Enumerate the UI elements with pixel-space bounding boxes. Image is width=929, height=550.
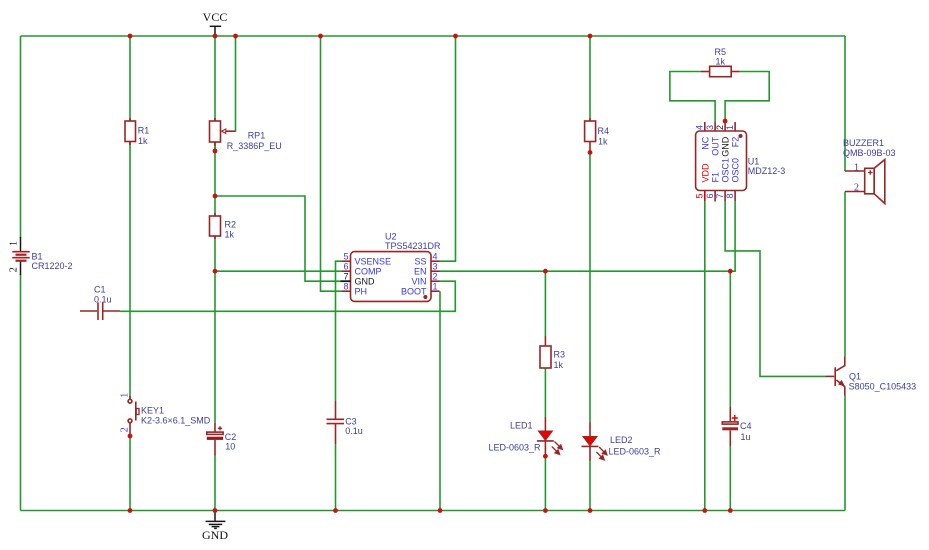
junction bottom rail at GND [213,508,218,513]
svg-text:R5: R5 [715,47,727,57]
svg-text:R3: R3 [554,350,566,360]
svg-text:U2: U2 [385,232,397,242]
svg-text:K2-3.6×6.1_SMD: K2-3.6×6.1_SMD [141,416,211,426]
svg-text:3: 3 [705,125,715,130]
svg-text:2: 2 [715,125,725,130]
svg-text:1k: 1k [598,137,608,147]
junction top rail at PH column [318,34,323,39]
wire RP1 bottom to R2 [214,142,216,217]
pushbutton KEY1 [120,393,211,436]
junction top rail at R4 [588,34,593,39]
junction top rail at R1 [128,34,133,39]
junction bottom rail at LED2 [588,508,593,513]
wire R5 left loop to U1 pin3 OUT [670,72,715,123]
transistor Q1 [826,356,917,396]
svg-text:OSC0: OSC0 [731,158,741,183]
svg-text:BUZZER1: BUZZER1 [843,138,884,148]
svg-text:C1: C1 [94,285,106,295]
svg-text:MDZ12-3: MDZ12-3 [748,166,786,176]
junction dot R2 bottom [213,269,218,274]
wire R3 to LED1 [544,368,546,417]
wire U1 OSC1 pin7 to Q1 base [725,201,825,376]
svg-text:10: 10 [225,442,235,452]
svg-text:OUT: OUT [711,136,721,156]
junction dot LED1 bottom [543,454,548,459]
junction bottom rail at BOOT column [438,508,443,513]
wire KEY1 to bottom rail [129,436,131,511]
svg-text:4: 4 [433,251,438,261]
capacitor C1 [80,285,120,321]
wire LED2 to bottom rail [589,461,591,511]
polarized capacitor C4 [722,407,751,446]
wire R2 junction down to C2 [214,271,216,423]
wire PH pin8 to top rail [321,36,343,291]
svg-text:1: 1 [433,281,438,291]
wire C2 to bottom rail [214,456,216,511]
wire C3 to bottom rail [335,444,337,511]
svg-text:R1: R1 [138,126,150,136]
svg-text:CR1220-2: CR1220-2 [32,261,73,271]
wire VSENSE pin5 down to C3 [336,261,343,401]
svg-text:2: 2 [433,271,438,281]
svg-text:BOOT: BOOT [401,287,427,297]
svg-text:1: 1 [854,162,859,173]
svg-text:F2: F2 [731,137,741,148]
wire EN node down through C4 [729,271,731,407]
wire VIN pin2 to C1 line [120,281,455,311]
wire left rail lower [20,274,22,511]
IC U1 MDZ12-3 [695,122,786,202]
wire right rail buzzer pin1 drop [844,36,846,171]
LED LED2 [582,422,662,461]
svg-text:COMP: COMP [355,267,382,277]
junction top rail at SS column [453,34,458,39]
svg-text:0.1u: 0.1u [345,426,363,436]
svg-text:5: 5 [695,193,705,198]
svg-text:2: 2 [120,427,131,432]
svg-text:7: 7 [715,193,725,198]
svg-text:PH: PH [355,287,368,297]
svg-text:NC: NC [700,136,710,149]
wire top rail [21,35,846,37]
potentiometer RP1 [210,118,282,151]
svg-text:R_3386P_EU: R_3386P_EU [227,141,282,151]
resistor R4 [585,118,609,152]
svg-text:SS: SS [414,257,426,267]
junction dot EN end [728,269,733,274]
junction dot node at 196 [213,194,218,199]
LED LED1 [489,417,563,454]
GND ground symbol [202,511,228,543]
junction bottom rail at C4 [728,508,733,513]
wire U1 OSC0 pin8 to EN node [730,201,735,271]
VCC power symbol [203,10,228,36]
junction bottom rail at C3 [333,508,338,513]
svg-text:LED1: LED1 [510,421,533,431]
buzzer BUZZER1 [843,138,896,204]
svg-text:1u: 1u [741,432,751,442]
svg-text:KEY1: KEY1 [141,406,164,416]
wire Q1 emitter to bottom rail [844,396,846,511]
junction dot R4 bottom [588,150,593,155]
wire R3 branch from EN line [544,271,546,336]
svg-text:1: 1 [120,393,131,398]
wire C4 to bottom rail [729,446,731,511]
svg-text:VDD: VDD [700,163,710,183]
svg-text:0.1u: 0.1u [94,295,112,305]
svg-text:F1: F1 [711,172,721,183]
svg-text:LED2: LED2 [610,435,633,445]
wire BOOT pin1 to bottom rail [439,291,441,510]
resistor R5 [701,47,740,77]
wire RP1 column top [214,36,216,122]
svg-text:6: 6 [705,193,715,198]
battery B1 [9,237,73,275]
svg-text:2: 2 [854,182,859,193]
svg-text:1: 1 [9,241,20,246]
svg-text:R2: R2 [225,220,237,230]
wire left rail upper [20,36,22,238]
wire RP1 wiper to top rail [235,36,236,131]
svg-text:OSC1: OSC1 [721,158,731,183]
svg-text:LED-0603_R: LED-0603_R [609,447,662,457]
wire node junction to GND pin7 of U2 [215,196,341,281]
svg-text:U1: U1 [748,157,760,167]
svg-text:1k: 1k [554,360,564,370]
wire R4 column top [589,36,591,122]
svg-text:VIN: VIN [411,277,426,287]
wire R5 right loop to U1 pin2 GND [725,72,769,122]
svg-text:VSENSE: VSENSE [355,257,392,267]
svg-text:VCC: VCC [203,10,228,24]
svg-text:1k: 1k [225,230,235,240]
polarized capacitor C2 [207,423,237,456]
junction dot EN R3 [543,269,548,274]
svg-text:C3: C3 [345,417,357,427]
svg-text:1k: 1k [716,57,726,67]
svg-text:EN: EN [414,267,427,277]
svg-text:2: 2 [9,267,20,272]
svg-text:LED-0603_R: LED-0603_R [489,443,542,453]
wire R1 column top [129,36,131,122]
svg-text:7: 7 [343,271,348,281]
svg-text:6: 6 [343,261,348,271]
svg-text:GND: GND [721,136,731,157]
svg-text:S8050_C105433: S8050_C105433 [849,382,917,392]
wire buzzer pin2 to Q1 collector [844,192,846,357]
wire U1 VDD pin5 to bottom rail [704,201,706,511]
wire R1 to KEY1 [129,141,131,398]
wire R2 bottom to COMP pin6 [215,236,342,271]
resistor R3 [540,336,565,370]
junction bottom rail at VDD column [702,508,707,513]
svg-text:QMB-09B-03: QMB-09B-03 [843,148,896,158]
junction dot U1 pin2 top [723,119,728,124]
svg-text:5: 5 [343,251,348,261]
svg-text:R4: R4 [598,126,610,136]
svg-text:3: 3 [433,261,438,271]
svg-text:C4: C4 [740,421,752,431]
junction bottom rail at KEY1 [128,508,133,513]
svg-text:GND: GND [202,528,228,542]
svg-text:8: 8 [343,281,348,291]
svg-text:1: 1 [725,125,735,130]
svg-text:TPS54231DR: TPS54231DR [385,241,441,251]
IC U2 TPS54231DR [341,232,442,302]
svg-text:GND: GND [355,277,376,287]
junction bottom rail at LED1 [543,508,548,513]
junction dot RP1 bottom [213,149,218,154]
junction dot KEY1 pin2 [128,434,133,439]
svg-text:Q1: Q1 [849,371,861,381]
svg-text:8: 8 [725,193,735,198]
wire bottom rail [21,510,846,512]
resistor R2 [210,213,237,240]
svg-text:4: 4 [695,125,705,130]
junction top rail at VCC [213,34,218,39]
wire LED1 to bottom rail [544,457,546,511]
junction top rail at RP1 wiper [233,34,238,39]
wire SS pin4 to top rail [440,36,456,261]
wire R4 to LED2 [589,152,591,422]
svg-text:RP1: RP1 [248,131,266,141]
resistor R1 [125,118,149,146]
svg-text:1k: 1k [138,136,148,146]
wire EN pin3 line [440,270,731,272]
capacitor C3 [327,401,363,444]
